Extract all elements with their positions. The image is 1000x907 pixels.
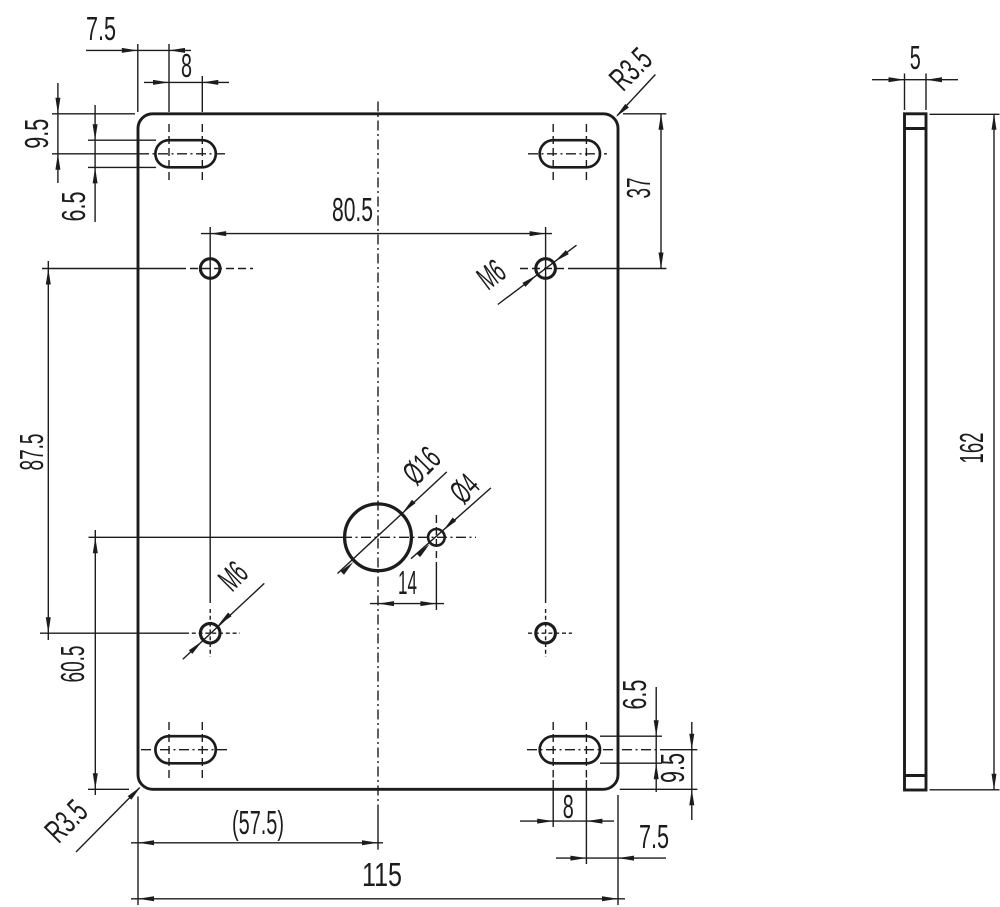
dimension 5: dim line [872, 79, 958, 81]
dimension 8 arrows [153, 80, 169, 85]
dimension 162: dim line [993, 114, 995, 790]
svg-text:(57.5): (57.5) [232, 804, 284, 841]
slot top-right vertical centerlines [552, 124, 554, 180]
svg-text:Ø4: Ø4 [442, 466, 486, 510]
extension line bottom edge to left [88, 788, 129, 790]
dimension 60.5 arrows [93, 537, 98, 553]
centerline slot bottom-right [527, 749, 662, 751]
vertical centerline M6 bottom-left [209, 609, 211, 657]
extension line plate left edge down [137, 797, 139, 906]
extension lines side view top [904, 74, 906, 111]
radius leader R3.5 top-right [617, 75, 655, 116]
svg-text:37: 37 [620, 178, 657, 199]
diameter leader Ø4 [411, 488, 491, 559]
slot hole bottom-left [155, 736, 215, 763]
vertical centerline Ø4 hole [435, 515, 437, 558]
extension line plate left edge up [137, 44, 139, 112]
side view corner tangent line top [905, 127, 927, 130]
diameter leader Ø16 [338, 472, 447, 574]
extension line slot left center up [168, 44, 170, 112]
dimension 162 arrows [992, 114, 997, 130]
svg-text:6.5: 6.5 [55, 192, 92, 222]
dimension 6.5 top-left: dim line [94, 105, 96, 222]
extension line top edge to left [52, 113, 135, 115]
svg-text:M6: M6 [470, 252, 512, 297]
svg-text:9.5: 9.5 [654, 753, 691, 783]
dimension 87.5: dim line [47, 261, 49, 640]
svg-text:14: 14 [398, 564, 417, 601]
extension line right M6 column [545, 227, 547, 603]
centerline slot top-right [528, 153, 607, 155]
dimension 7.5 arrows [122, 48, 138, 53]
slot hole top-right [540, 140, 600, 167]
dimension 115: dim line [131, 898, 625, 900]
slot top-left vertical centerlines [168, 124, 170, 180]
dimension 6.5 bottom-right: dim line [655, 687, 657, 792]
extension line M6 top-left to left [42, 268, 178, 270]
dimension 9.5 bottom arrows [689, 734, 694, 750]
extension line bottom edge to right [620, 788, 698, 790]
slot bottom-right vertical centerlines [552, 722, 554, 778]
dimension 115 arrows [138, 896, 154, 901]
dimension 80.5 arrows [210, 231, 226, 236]
slot hole top-left (8x6.5 obround) [155, 140, 215, 167]
vertical centerline of plate [377, 102, 379, 815]
dimension 8 bottom-right: dim line [520, 820, 614, 822]
svg-text:7.5: 7.5 [86, 10, 116, 47]
horizontal centerline center holes [89, 536, 343, 538]
svg-text:80.5: 80.5 [332, 191, 373, 228]
dimension (57.5): dim line [131, 842, 383, 844]
dimension 7.5 bottom-right: dim line [556, 857, 666, 859]
center hole Ø16 [345, 504, 412, 571]
dimension 7.5 top-left: dim line [86, 49, 191, 51]
svg-text:Ø16: Ø16 [395, 439, 447, 491]
svg-text:9.5: 9.5 [18, 119, 55, 149]
svg-text:115: 115 [362, 856, 402, 893]
side view corner tangent line bottom [905, 774, 927, 777]
svg-text:8: 8 [563, 788, 574, 825]
centerline M6 bottom-left [40, 632, 185, 634]
centerline M6 top-left [178, 268, 253, 270]
dimension 8 bottom arrows [537, 819, 553, 824]
dimension 8 top-left: dim line [144, 81, 229, 83]
extension line left M6 column [209, 227, 211, 603]
svg-text:R3.5: R3.5 [37, 792, 94, 849]
svg-text:5: 5 [910, 39, 921, 76]
extension lines slot edges to right [600, 735, 662, 737]
M6 tapped hole bottom-right [536, 623, 556, 643]
centerline M6 bottom-right [528, 632, 572, 634]
svg-text:6.5: 6.5 [616, 680, 653, 710]
dimension 37 arrows [659, 114, 664, 130]
centerline M6 top-right [520, 268, 575, 270]
dimension 14: dim line [370, 603, 444, 605]
M6 tapped hole top-left [200, 259, 220, 279]
extension line plate right edge down [617, 795, 619, 905]
dimension 6.5 bottom arrows [654, 720, 659, 736]
M6 tapped hole top-right [536, 259, 556, 279]
dimension 14 arrows [378, 601, 394, 606]
dimension 60.5: dim line [94, 530, 96, 795]
side view outline (5 thick) [905, 114, 927, 790]
slot hole bottom-right [540, 736, 600, 763]
svg-text:60.5: 60.5 [54, 646, 91, 683]
extension line top edge to right [623, 113, 666, 115]
slot bottom-left vertical centerlines [168, 722, 170, 778]
extension line slot right center up [201, 76, 203, 112]
vertical centerline M6 bottom-right [545, 609, 547, 657]
dimension 7.5 bottom arrows [570, 856, 586, 861]
dimension 5 arrows [889, 77, 905, 82]
dimension 6.5 arrows [93, 124, 98, 140]
extension lines 162 [930, 113, 1000, 115]
dimension 9.5 arrows [55, 98, 60, 114]
centerline slot bottom-left [141, 749, 228, 751]
svg-text:M6: M6 [211, 554, 255, 598]
dimension 9.5 top-left: dim line [57, 83, 59, 183]
dimension 9.5 bottom-right: dim line [691, 722, 693, 820]
centerline slot top-left [52, 153, 139, 155]
thread leader M6 top-right [498, 245, 577, 304]
svg-text:8: 8 [181, 47, 192, 84]
svg-text:7.5: 7.5 [639, 818, 669, 855]
svg-text:87.5: 87.5 [13, 434, 50, 471]
plate outline (front view, 115x162, R3.5 corners) [138, 114, 618, 790]
svg-text:R3.5: R3.5 [602, 40, 659, 97]
small hole Ø4 [428, 529, 445, 546]
dimension (57.5) arrows [138, 840, 154, 845]
svg-text:162: 162 [953, 433, 990, 464]
dimension 80.5: dim line [201, 233, 552, 235]
M6 tapped hole bottom-left [200, 623, 220, 643]
extension lines slot edges to left [88, 139, 156, 141]
radius leader R3.5 bottom-left [76, 788, 140, 852]
thread leader M6 bottom-left [183, 583, 264, 659]
dimension 87.5 arrows [46, 269, 51, 285]
dimension 37: dim line [660, 114, 662, 269]
